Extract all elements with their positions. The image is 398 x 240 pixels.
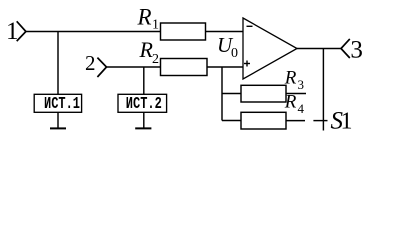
svg-text:1: 1: [341, 109, 353, 135]
wire R2 to op-amp non-inverting input: [207, 66, 243, 68]
svg-text:3: 3: [350, 37, 363, 64]
label R4: [284, 91, 305, 116]
resistor R1: [161, 23, 206, 40]
svg-text:R: R: [137, 5, 152, 30]
wire output junction down to S1 node: [322, 49, 324, 131]
svg-text:ИСТ.2: ИСТ.2: [126, 94, 162, 113]
terminal 1: [6, 18, 26, 45]
terminal 3: [341, 37, 363, 64]
ground under ИСТ.1: [50, 112, 66, 128]
ground under ИСТ.2: [135, 112, 151, 128]
svg-text:R: R: [284, 91, 297, 112]
svg-text:R: R: [284, 67, 297, 88]
label S1: [331, 108, 353, 135]
source ИСТ.2: [118, 94, 167, 113]
label R3: [284, 67, 304, 92]
resistor R4: [241, 112, 286, 129]
svg-text:1: 1: [152, 18, 159, 33]
terminal 2: [85, 51, 107, 77]
svg-text:ИСТ.1: ИСТ.1: [44, 94, 80, 113]
source ИСТ.1: [34, 94, 81, 113]
resistor R3: [241, 85, 286, 102]
svg-text:4: 4: [298, 101, 305, 116]
wire node1 to R1: [26, 31, 161, 33]
wire R1 to op-amp inverting input: [206, 31, 244, 33]
op-amp: [243, 18, 297, 79]
wire feedback tee from non-inverting input down: [221, 67, 223, 121]
label R1: [137, 5, 160, 33]
wire tee to R3: [222, 93, 241, 95]
wire op-amp output to node 3: [297, 48, 341, 50]
wire R4 right lead (open end): [286, 120, 305, 122]
S1 terminal cross tick: [313, 120, 327, 122]
svg-text:2: 2: [152, 52, 159, 67]
wire node2 to R2: [107, 66, 161, 68]
wire R3 right lead (open end): [286, 93, 306, 95]
svg-text:0: 0: [231, 46, 238, 61]
resistor R2: [161, 59, 208, 76]
wire junction down to ИСТ.2: [143, 67, 145, 94]
label U0: [217, 33, 238, 61]
wire tee to R4: [222, 120, 241, 122]
svg-text:2: 2: [85, 51, 96, 75]
wire junction down to ИСТ.1: [57, 32, 59, 95]
label R2: [139, 37, 160, 67]
svg-text:3: 3: [298, 77, 305, 92]
